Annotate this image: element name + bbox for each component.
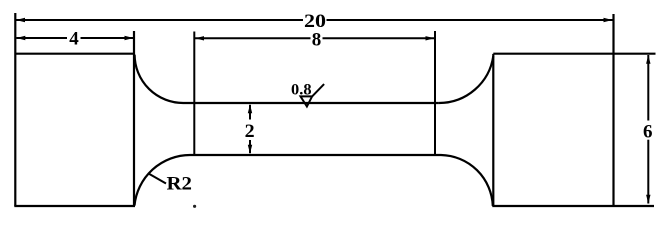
fillet top-right R2 (439, 56, 493, 103)
stray dot artifact (193, 205, 196, 208)
gauge section top edge (184, 102, 439, 104)
arrowhead dim2 bottom (248, 145, 252, 154)
left grip block left edge + extension line for dim 20 (14, 13, 16, 206)
extension line right of dim 8 (434, 31, 436, 155)
arrowhead dim4 right (125, 36, 134, 40)
arrowhead dim8 left (195, 36, 204, 40)
gauge section bottom edge (190, 154, 441, 156)
arrowhead dim20 left (16, 18, 25, 22)
fillet bottom-left R2 (135, 155, 191, 206)
svg-text:8: 8 (312, 29, 322, 50)
leader line R2 (149, 174, 167, 184)
left grip block shoulder (right edge) + extension for dim 4 (133, 31, 135, 206)
arrowhead dim6 bottom (646, 195, 650, 204)
svg-text:R2: R2 (167, 174, 193, 195)
left grip block bottom edge (14, 205, 135, 207)
extension line left of dim 8 (193, 32, 195, 156)
arrowhead dim6 top (646, 55, 650, 64)
right grip block top edge + extension for dim 6 (493, 53, 655, 55)
left grip block top edge (15, 53, 134, 55)
surface finish symbol triangle (301, 96, 313, 106)
dimension line 8 (195, 37, 311, 39)
arrowhead dim8 right (426, 36, 435, 40)
arrowhead dim20 right (604, 18, 613, 22)
dimension line 4 (16, 37, 67, 39)
surface finish symbol tail (312, 84, 324, 96)
svg-text:0.8: 0.8 (291, 81, 312, 98)
svg-text:2: 2 (245, 121, 255, 142)
fillet top-left R2 (135, 55, 184, 103)
right grip block bottom edge + extension for dim 6 (492, 205, 654, 207)
fillet bottom-right R2 (441, 155, 493, 206)
right grip block left edge (492, 54, 494, 206)
arrowhead dim4 left (16, 36, 25, 40)
dimension line 2 (249, 105, 251, 120)
dimension line 6 (647, 55, 649, 121)
arrowhead dim2 top (248, 104, 252, 113)
right grip block right edge + extension for dim 20 (612, 14, 614, 206)
svg-text:4: 4 (69, 28, 79, 49)
dimension line 20 (16, 19, 303, 21)
svg-text:6: 6 (643, 122, 653, 143)
